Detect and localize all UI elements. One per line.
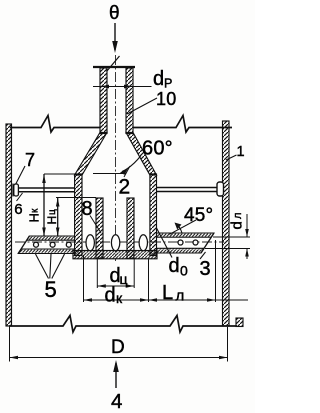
holes d0 in right ray: [178, 240, 198, 245]
svg-text:D: D: [111, 337, 125, 358]
shoulder inner line: [93, 173, 126, 175]
label 10 with leader: [127, 89, 176, 114]
svg-text:1: 1: [237, 144, 245, 160]
dimension Hc vertical: [45, 198, 96, 237]
ray pipe left end slant: [18, 236, 29, 254]
dimension dc bracket: [97, 259, 134, 288]
angle 60 dimension: [120, 138, 173, 175]
gas inlet arrow: [112, 23, 118, 53]
support rod 7 left: [19, 188, 76, 192]
vessel top line right with break: [133, 116, 232, 133]
outlet arrow 4: [111, 360, 123, 413]
ray pipe 3 right top strip: [157, 233, 214, 237]
svg-text:3: 3: [200, 258, 211, 280]
svg-text:к: к: [30, 208, 41, 213]
wall lug 6 (flange at left wall): [13, 184, 18, 197]
central tube 8 right wall: [127, 198, 134, 259]
svg-text:ц: ц: [120, 271, 128, 287]
svg-text:d: d: [105, 285, 116, 307]
svg-text:7: 7: [25, 150, 35, 170]
label 7 with leader: [16, 150, 36, 185]
rod end cap right: [217, 182, 224, 196]
vessel shell right wall: [223, 121, 230, 326]
svg-text:60°: 60°: [142, 138, 173, 160]
svg-text:H: H: [27, 213, 42, 223]
riser pipe break slash: [107, 56, 120, 72]
svg-text:4: 4: [111, 390, 123, 413]
svg-text:5: 5: [45, 277, 57, 302]
svg-text:2: 2: [119, 176, 131, 199]
svg-text:10: 10: [156, 89, 176, 109]
holes 5 in left ray: [34, 242, 72, 247]
shoulder extension line: [44, 173, 75, 175]
bottom plate of cylinder: [73, 251, 157, 259]
svg-text:ц: ц: [47, 209, 58, 215]
bottom hole oval left: [86, 235, 94, 251]
cone left wall: [75, 133, 107, 176]
bottom hole oval right: [139, 235, 147, 251]
vessel bottom line with breaks: [9, 316, 237, 333]
vertical centerline: [115, 55, 117, 261]
wall section block at bottom line right end: [236, 318, 243, 327]
svg-text:6: 6: [14, 201, 23, 218]
cylinder 2 left wall: [75, 174, 82, 256]
label dk: [105, 285, 124, 307]
ray pipe right end slant: [201, 233, 214, 253]
label d0 with leader: [156, 227, 188, 279]
vessel shell left wall: [6, 124, 12, 326]
ray pipe 3 right bottom strip: [157, 248, 205, 253]
dimension dP line: [93, 85, 152, 89]
label 2 with leader: [119, 166, 131, 199]
svg-text:d: d: [153, 68, 164, 90]
label 5 with leaders: [36, 254, 65, 302]
angle 45 dimension: [170, 205, 214, 234]
label 3 with leader: [200, 252, 211, 280]
cone right wall: [126, 133, 157, 176]
riser pipe left wall: [100, 68, 107, 134]
label 6 with leader: [14, 193, 23, 218]
svg-text:л: л: [176, 288, 185, 305]
dimension D: [10, 326, 228, 362]
svg-text:θ: θ: [109, 3, 120, 24]
svg-text:H: H: [45, 216, 59, 225]
svg-text:0: 0: [180, 263, 188, 279]
svg-text:8: 8: [82, 198, 93, 220]
dimension Hk vertical: [27, 174, 46, 236]
cylinder 2 right wall: [150, 174, 157, 256]
svg-text:d: d: [169, 255, 180, 277]
riser pipe right wall: [126, 68, 133, 134]
svg-text:L: L: [162, 282, 173, 304]
label dP: [153, 68, 173, 91]
svg-text:d: d: [229, 221, 246, 230]
bottom hole oval center: [111, 235, 119, 251]
ray pipe left bottom strip: [18, 249, 74, 254]
central tube 8 left wall: [96, 198, 103, 259]
svg-text:45°: 45°: [184, 205, 213, 226]
dimension dl right: [205, 212, 250, 259]
svg-text:л: л: [232, 212, 244, 219]
svg-text:к: к: [116, 290, 123, 306]
label 8 with leader: [82, 198, 102, 233]
dimension dk and Ll line: [84, 240, 249, 302]
label Ll: [162, 282, 184, 305]
riser pipe 10 top end line: [93, 66, 135, 68]
support rod right: [157, 188, 218, 192]
ray pipe left top strip: [27, 236, 75, 240]
gas inlet symbol theta: [109, 3, 120, 24]
label 1 with leader: [226, 144, 245, 160]
horizontal centerline: [15, 241, 224, 243]
vessel top line left with break: [10, 116, 100, 133]
